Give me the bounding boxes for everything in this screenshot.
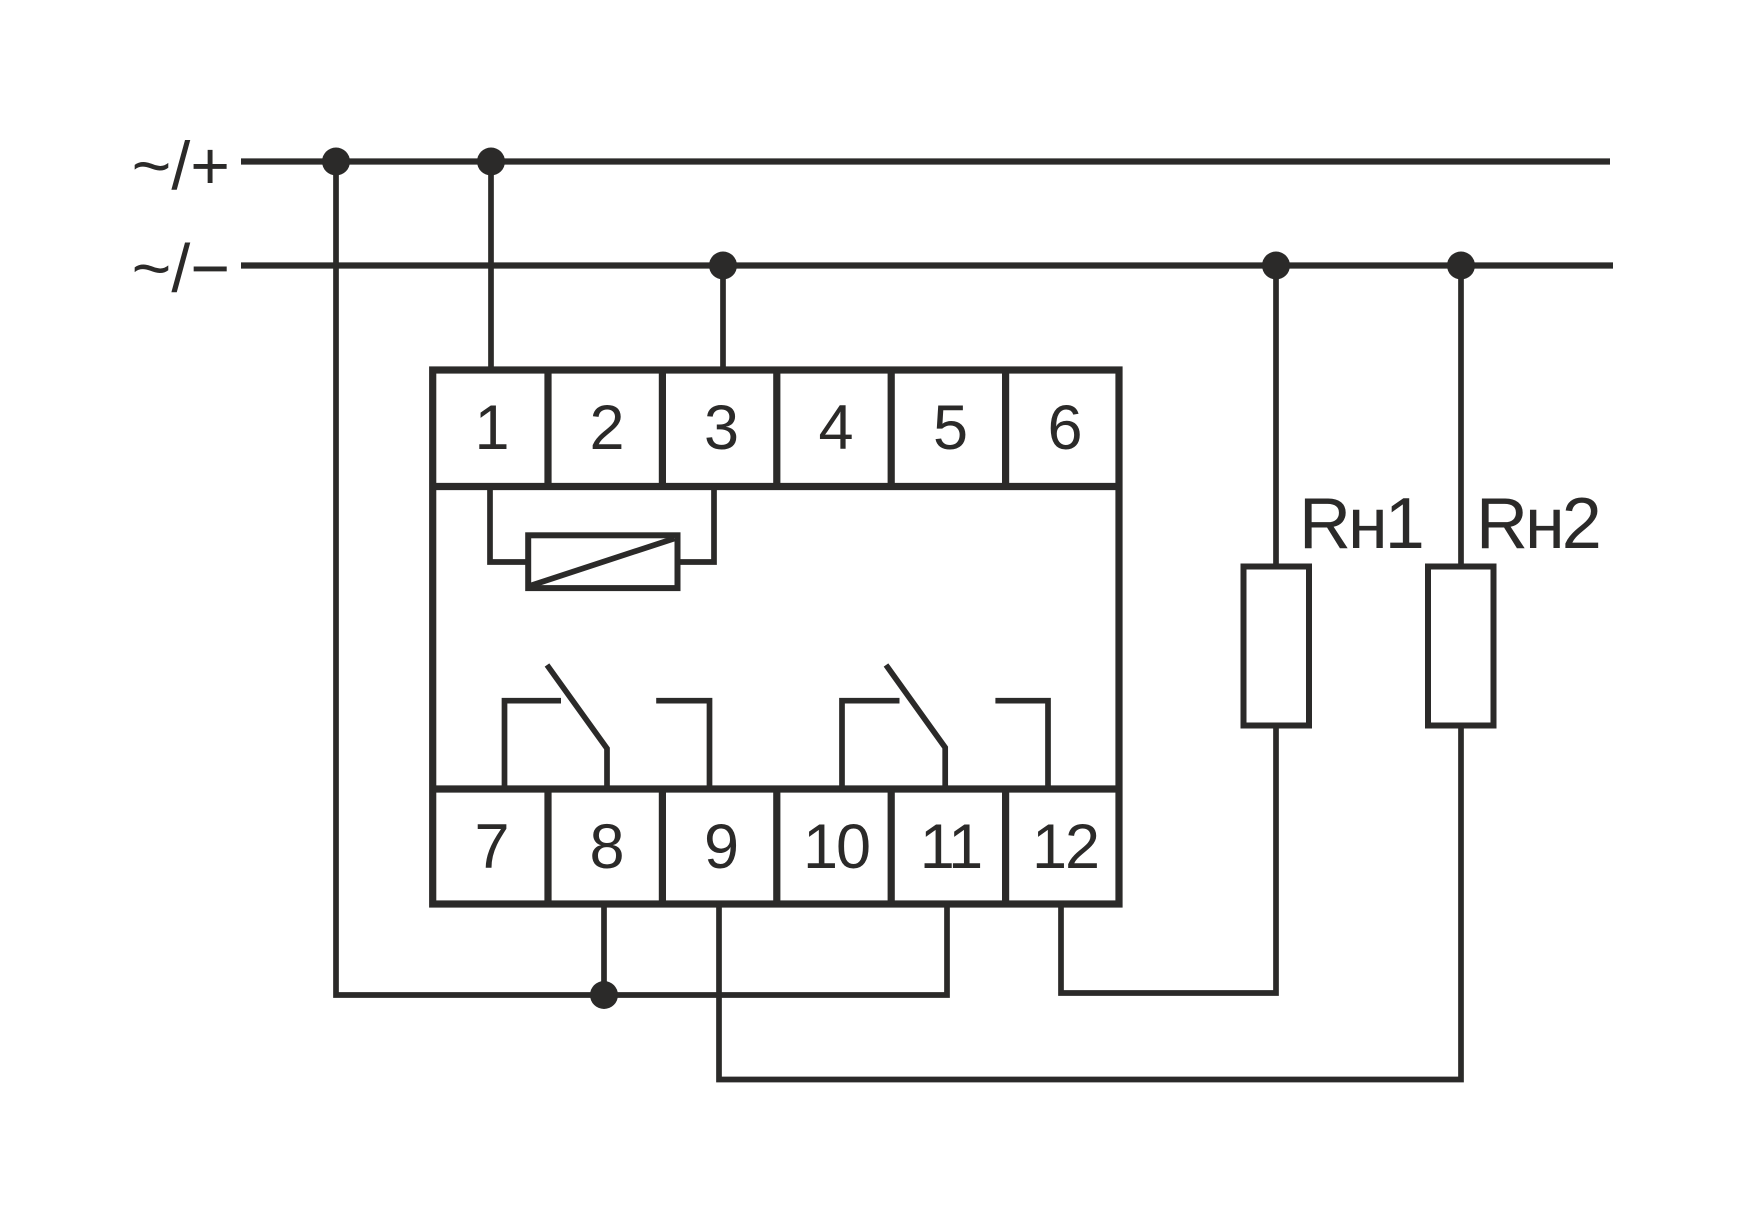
svg-text:1: 1	[474, 393, 509, 463]
svg-text:~/−: ~/−	[132, 231, 230, 307]
svg-text:9: 9	[704, 812, 739, 882]
svg-text:6: 6	[1047, 393, 1082, 463]
svg-text:11: 11	[920, 812, 981, 882]
svg-text:Rн1: Rн1	[1299, 484, 1422, 564]
svg-text:~/+: ~/+	[132, 128, 230, 204]
svg-text:Rн2: Rн2	[1476, 484, 1599, 564]
svg-text:12: 12	[1032, 812, 1098, 882]
svg-text:7: 7	[474, 812, 509, 882]
svg-text:5: 5	[933, 393, 968, 463]
svg-text:8: 8	[589, 812, 624, 882]
svg-text:4: 4	[818, 393, 853, 463]
svg-text:3: 3	[704, 393, 739, 463]
svg-text:10: 10	[803, 812, 869, 882]
svg-text:2: 2	[589, 393, 624, 463]
